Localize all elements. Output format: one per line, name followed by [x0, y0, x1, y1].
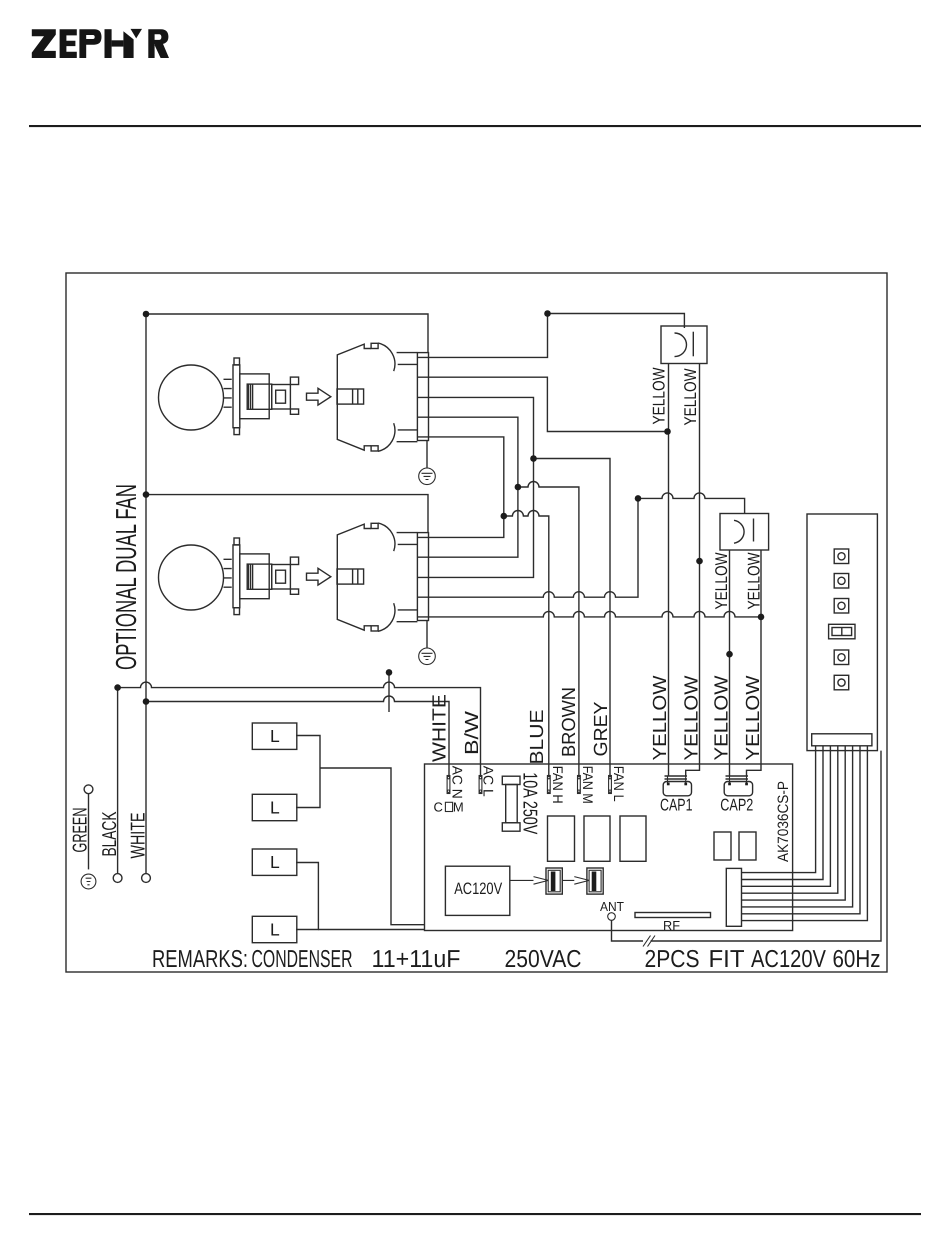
svg-text:BLACK: BLACK	[99, 811, 121, 856]
svg-text:B/W: B/W	[462, 711, 483, 755]
svg-text:BROWN: BROWN	[559, 687, 580, 757]
svg-text:250VAC: 250VAC	[505, 946, 582, 973]
svg-text:YELLOW: YELLOW	[745, 553, 764, 610]
svg-text:YELLOW: YELLOW	[743, 675, 764, 760]
svg-text:M: M	[453, 800, 464, 815]
svg-text:RF: RF	[663, 918, 680, 933]
svg-text:YELLOW: YELLOW	[650, 368, 669, 425]
svg-text:GREY: GREY	[591, 701, 612, 756]
svg-text:FAN L: FAN L	[611, 766, 627, 802]
svg-text:AC120V: AC120V	[454, 880, 502, 898]
svg-text:60Hz: 60Hz	[833, 946, 881, 973]
svg-text:REMARKS:: REMARKS:	[152, 946, 248, 973]
svg-text:2PCS: 2PCS	[645, 946, 700, 973]
svg-text:FIT: FIT	[709, 946, 745, 973]
svg-text:YELLOW: YELLOW	[682, 675, 703, 760]
svg-text:WHITE: WHITE	[429, 694, 450, 762]
svg-text:10A 250V: 10A 250V	[518, 772, 540, 834]
svg-text:L: L	[270, 726, 280, 746]
svg-text:CONDENSER: CONDENSER	[252, 946, 353, 973]
svg-text:L: L	[270, 797, 280, 817]
svg-text:L: L	[270, 919, 280, 939]
svg-text:ANT: ANT	[600, 899, 624, 914]
svg-text:YELLOW: YELLOW	[650, 675, 671, 760]
svg-text:CAP2: CAP2	[720, 796, 753, 815]
svg-text:FAN M: FAN M	[580, 766, 596, 804]
svg-text:CAP1: CAP1	[660, 796, 693, 815]
svg-text:AC120V: AC120V	[751, 946, 827, 973]
svg-text:YELLOW: YELLOW	[712, 553, 731, 610]
svg-text:OPTIONAL DUAL FAN: OPTIONAL DUAL FAN	[111, 484, 143, 670]
svg-text:AK7036CS-P: AK7036CS-P	[775, 781, 792, 862]
svg-text:YELLOW: YELLOW	[712, 675, 733, 760]
svg-text:L: L	[270, 852, 280, 872]
svg-text:WHITE: WHITE	[128, 813, 150, 859]
svg-text:C: C	[434, 800, 443, 815]
svg-text:YELLOW: YELLOW	[681, 369, 700, 426]
svg-text:FAN H: FAN H	[550, 766, 566, 804]
svg-text:BLUE: BLUE	[527, 710, 548, 765]
svg-text:11+11uF: 11+11uF	[372, 946, 461, 973]
svg-text:AC N: AC N	[450, 766, 466, 799]
svg-text:GREEN: GREEN	[70, 808, 92, 853]
svg-text:AC L: AC L	[481, 766, 497, 797]
